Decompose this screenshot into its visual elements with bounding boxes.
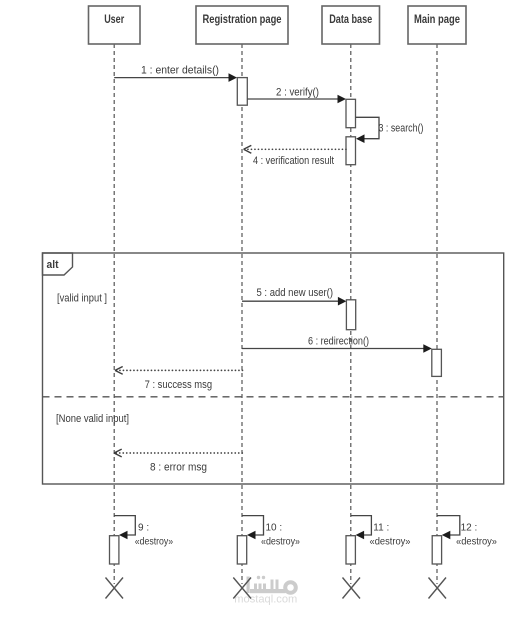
lifeline Data base [350,44,352,584]
participant User [89,6,141,44]
activation bar Registration page (destroy) [237,536,246,564]
destruction X User [106,578,124,599]
message 11 : destroy self-message Data base [351,516,411,548]
message 8 : error msg (return) [114,449,242,473]
alt frame [43,253,504,484]
destruction X Data base [343,578,361,599]
activation bar Main page (destroy) [432,536,441,564]
destruction X Registration page [233,578,251,599]
participant Main page [408,6,466,44]
svg-text:Data base: Data base [329,12,372,26]
activation bar Main page (msg6) [432,349,442,376]
svg-text:5 : add new user(): 5 : add new user() [257,287,334,299]
message 3 : search() self-message [356,117,424,143]
lifeline Main page [436,44,438,584]
svg-text:Main page: Main page [414,12,460,26]
message 9 : destroy self-message User [114,516,173,548]
message 2 : verify() [247,87,346,104]
svg-text:3 : search(): 3 : search() [379,123,424,135]
lifeline User [113,44,115,584]
message 5 : add new user() [242,287,346,306]
lifeline Registration page [241,44,243,584]
svg-text:[valid input ]: [valid input ] [57,293,107,305]
alt divider [43,396,504,398]
message 7 : success msg (return) [115,367,243,392]
activation bar User (destroy) [110,536,119,564]
svg-text:11 :: 11 : [373,523,389,534]
svg-text:12 :: 12 : [461,523,478,534]
svg-text:«destroy»: «destroy» [456,537,497,548]
message 10 : destroy self-message Registration page [242,516,300,548]
svg-text:«destroy»: «destroy» [370,537,411,548]
svg-text:7 : success msg: 7 : success msg [145,379,213,391]
svg-text:User: User [104,12,124,26]
activation bar Data base (destroy) [346,536,355,564]
activation bar Registration page (msg1) [237,78,247,106]
activation bar Data base (msg5) [346,300,355,330]
guard [valid input ] [57,293,107,305]
svg-text:[None valid input]: [None valid input] [56,413,129,425]
message 12 : destroy self-message Main page [437,516,497,548]
message 4 : verification result (return) [244,145,346,167]
participant Data base [322,6,380,44]
activation bar Data base (msg3) [346,137,356,165]
message 6 : redirection() [242,336,432,353]
participant Registration page [196,6,288,44]
svg-text:Registration page: Registration page [203,12,282,26]
svg-text:6 : redirection(): 6 : redirection() [308,336,369,348]
guard [None valid input] [56,413,129,425]
svg-text:9 :: 9 : [138,523,149,534]
destruction X Main page [429,578,447,599]
svg-text:«destroy»: «destroy» [135,537,174,548]
message 1 : enter details() [114,65,237,82]
svg-text:10 :: 10 : [266,523,283,534]
svg-text:8 : error msg: 8 : error msg [150,462,207,474]
svg-text:2 : verify(): 2 : verify() [276,87,319,99]
svg-text:4 : verification result: 4 : verification result [253,155,334,167]
svg-text:mostaql.com: mostaql.com [234,594,297,606]
svg-text:«destroy»: «destroy» [261,537,300,548]
activation bar Data base (msg2) [346,99,356,127]
watermark mostaql logo [234,576,297,606]
svg-text:1 : enter details(): 1 : enter details() [141,65,219,77]
svg-text:alt: alt [47,259,59,271]
